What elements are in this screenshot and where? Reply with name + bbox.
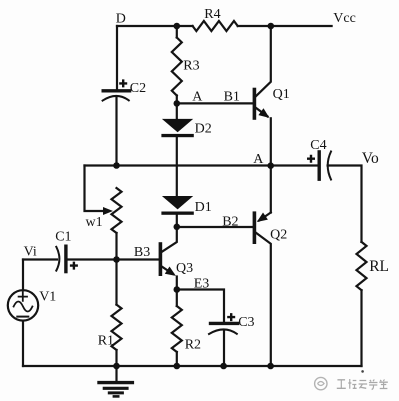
svg-text:C1: C1 <box>55 230 71 245</box>
svg-text:R2: R2 <box>185 338 201 353</box>
svg-text:C4: C4 <box>310 138 326 153</box>
svg-text:R1: R1 <box>98 334 114 349</box>
wire R2 bottom stub <box>176 352 178 366</box>
svg-text:A: A <box>192 90 203 105</box>
wire D2 cathode to D1 anode <box>176 137 178 195</box>
diode D2 <box>162 119 193 132</box>
ground symbol <box>115 366 117 382</box>
transistor Q1 emitter lead <box>256 108 268 117</box>
junction node (177,103) <box>174 100 181 107</box>
transistor Q1 base bar <box>253 90 257 119</box>
svg-text:Vcc: Vcc <box>333 11 356 26</box>
svg-text:Vo: Vo <box>362 150 379 167</box>
capacitor C1 positive plate <box>64 246 67 271</box>
junction node (271,26) <box>268 23 275 30</box>
wire node E3 to C3 top <box>177 290 224 323</box>
wire V1 bottom lead <box>22 321 24 366</box>
wire C3 bottom to ground rail <box>223 330 225 366</box>
junction node (116,166) <box>113 162 120 169</box>
wire input Vi left segment <box>23 258 57 260</box>
wire Q1 collector from top rail <box>256 26 271 96</box>
svg-text:C3: C3 <box>238 315 254 330</box>
resistor R2 <box>172 306 182 352</box>
svg-text:D1: D1 <box>195 200 212 215</box>
capacitor C4 curved plate <box>328 152 331 180</box>
svg-text:C2: C2 <box>130 81 146 96</box>
wire node A1 to D2 anode <box>176 103 178 118</box>
wire input C1 to B3 to Q3 base <box>66 258 159 260</box>
wire Q3 collector <box>162 227 177 252</box>
junction node (177,290) <box>174 286 181 293</box>
wire R1 bottom stub <box>115 350 117 366</box>
junction node (116,366) <box>113 363 120 370</box>
wire Q2 collector to ground rail <box>256 233 271 366</box>
junction node (177,26) <box>174 23 181 30</box>
transistor Q2 base bar <box>253 213 257 242</box>
watermark text 工控云学堂 <box>337 380 346 389</box>
wire w1 bottom to B3 <box>115 233 117 260</box>
junction node (116,260) <box>113 256 120 263</box>
transistor Q3 base bar <box>159 244 163 274</box>
wire bottom ground rail <box>23 365 362 367</box>
svg-text:RL: RL <box>369 258 389 275</box>
capacitor C2 positive plate <box>103 89 129 92</box>
wire bootstrap horizontal w1-top to node A to C4 <box>85 164 320 166</box>
diode D1 <box>162 196 193 209</box>
junction node (177,227) <box>174 224 181 231</box>
resistor R1 <box>112 305 122 350</box>
transistor Q2 emitter arrow <box>257 213 268 223</box>
junction node (177,366) <box>174 363 181 370</box>
wire Q1 emitter to node A <box>270 118 272 165</box>
svg-text:R4: R4 <box>204 7 220 22</box>
svg-text:Q2: Q2 <box>270 228 287 243</box>
watermark logo <box>315 377 327 389</box>
plus C3 <box>227 313 235 321</box>
capacitor C1 curved plate <box>56 247 59 271</box>
svg-text:Vi: Vi <box>24 245 37 260</box>
wire V1 top lead <box>22 260 24 291</box>
capacitor C3 positive plate <box>211 322 238 325</box>
wire top rail Vcc left segment <box>117 25 193 27</box>
svg-text:V1: V1 <box>39 289 56 304</box>
junction node (271,166) <box>267 162 274 169</box>
wire top rail Vcc right segment <box>238 25 332 27</box>
svg-text:D2: D2 <box>195 122 212 137</box>
capacitor C3 curved plate <box>209 329 237 334</box>
transistor Q3 emitter lead <box>162 267 173 274</box>
junction node (271,366) <box>267 363 274 370</box>
potentiometer w1 track <box>112 188 122 233</box>
resistor R4 <box>193 21 238 31</box>
source V1 circle <box>8 290 38 320</box>
svg-text:D: D <box>116 12 126 27</box>
svg-text:w1: w1 <box>86 215 103 230</box>
capacitor C2 curved plate <box>103 96 129 101</box>
wire Q2 emitter from node A <box>270 166 272 213</box>
plus C2 <box>119 79 127 87</box>
wire C4 to Vo corner and RL top <box>328 166 362 242</box>
potentiometer w1 wiper arrow <box>103 207 113 215</box>
wire Q3 emitter to node E3 <box>176 277 178 290</box>
wire node B2 to Q2 base <box>177 226 253 228</box>
source V1 sine wave <box>14 302 33 312</box>
transistor Q2 emitter lead <box>259 213 271 221</box>
wire node D column down to C2 <box>116 26 118 89</box>
svg-text:R3: R3 <box>183 59 199 74</box>
source V1 plus sign <box>19 292 27 300</box>
wire R3 top stub <box>176 26 178 38</box>
resistor RL <box>357 242 367 290</box>
capacitor C4 positive plate <box>318 152 321 179</box>
svg-text:B1: B1 <box>224 90 240 105</box>
plus C1 <box>70 262 78 270</box>
wire R2 top stub <box>176 290 178 307</box>
svg-text:B2: B2 <box>222 214 238 229</box>
wire C2 bottom to bootstrap node <box>115 96 117 165</box>
resistor R3 <box>172 38 182 96</box>
svg-text:Q1: Q1 <box>273 87 290 102</box>
svg-text:A: A <box>253 152 264 167</box>
junction node (224,366) <box>220 363 227 370</box>
svg-text:E3: E3 <box>194 276 210 291</box>
wire D1 cathode to node B2 <box>176 215 178 227</box>
wire RL bottom to ground rail <box>360 290 362 366</box>
source V1 minus sign <box>17 316 28 318</box>
wire w1 wiper arm <box>85 166 105 212</box>
plus C4 <box>307 155 315 163</box>
transistor Q3 emitter arrow <box>165 267 176 276</box>
wire R1 top stub <box>115 260 117 305</box>
wire node A1 to Q1 base B1 <box>177 102 253 104</box>
stray speck <box>361 370 364 373</box>
wire R3 bottom stub to node A1 <box>176 96 178 104</box>
svg-text:B3: B3 <box>134 245 150 260</box>
transistor Q1 emitter arrow <box>258 108 269 118</box>
svg-text:Q3: Q3 <box>176 261 193 276</box>
